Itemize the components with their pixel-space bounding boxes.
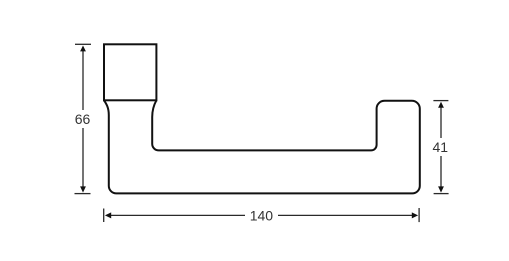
dim 140: left tick: [103, 209, 105, 223]
dim 66: top tick: [75, 43, 91, 45]
dim 140: left line + arrow: [111, 214, 245, 216]
dim 41: top tick: [433, 100, 448, 102]
dim 41: lower line + arrow: [440, 156, 442, 187]
dim 140: right tick: [418, 208, 420, 222]
dim 41: bottom tick: [434, 193, 449, 195]
handle square hub block: [104, 44, 156, 100]
dim 41: upper line + arrow: [440, 108, 442, 139]
dim 66: upper line + arrow: [82, 51, 84, 110]
svg-text:66: 66: [75, 111, 91, 127]
dim 66: bottom tick: [75, 193, 91, 195]
dim 140: right line + arrow: [278, 214, 412, 216]
dim 66: lower line + arrow: [82, 128, 84, 187]
svg-text:41: 41: [433, 139, 449, 155]
svg-text:140: 140: [250, 207, 274, 223]
handle lever outline: [104, 100, 420, 193]
